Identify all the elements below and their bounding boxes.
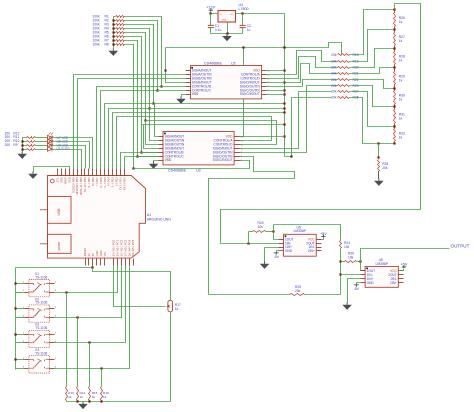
svg-text:TS-1106: TS-1106 [35, 326, 47, 330]
wire rail drop to U2 SIG pins [166, 48, 186, 83]
svg-text:10k: 10k [258, 225, 264, 229]
wire U3 SIG/D/INOUT stair to R24 [241, 92, 332, 149]
ground GND8 [346, 303, 348, 305]
svg-text:20k: 20k [331, 66, 337, 70]
wire R19 to tap1 [350, 30, 395, 62]
pin U5 2IN+ [317, 250, 322, 252]
wire D4 bus line 2 [109, 109, 285, 169]
wire +12V to regulator [211, 12, 219, 14]
pin U3 right CONTROL/A [235, 140, 241, 142]
pin U6 2IN- [399, 278, 404, 280]
ground GND3 [180, 97, 182, 99]
wire output riser [361, 249, 450, 262]
svg-text:20k: 20k [331, 96, 337, 100]
capacitor C1 0.1u [210, 14, 212, 26]
wire U2 SIG/C/OUTIN to spine [267, 90, 285, 92]
svg-text:AREF: AREF [63, 177, 67, 184]
wire LED U9 to U1 [53, 146, 86, 169]
pin U2 right SIG/D/OUTIN [262, 86, 267, 88]
wire U3 SIG/D/OUTIN stair to R23 [241, 86, 338, 153]
svg-text:20k: 20k [331, 90, 337, 94]
svg-text:1k: 1k [399, 98, 403, 102]
wire U3 SIG/A/OUTIN feed [150, 109, 159, 141]
svg-text:1k: 1k [399, 116, 403, 120]
junction rail dots [76, 400, 78, 402]
pin U2 left VSS [186, 94, 191, 96]
pin U1 top 7 / PD7 [96, 169, 98, 176]
pin U3 right SIG/C/INOUT [235, 160, 241, 162]
junction [148, 107, 150, 109]
junction ladder tap [393, 105, 395, 107]
svg-text:TS-1106: TS-1106 [35, 301, 47, 305]
supply U6 +5V [399, 269, 404, 271]
wire LED U10 to U1 [53, 150, 82, 169]
wire R24 bottom node [340, 249, 342, 295]
wire 1OUT to R24 top [273, 225, 275, 232]
wire bottom ground rail [67, 401, 171, 403]
wire U2 SIG/C/INOUT to spine [267, 94, 285, 96]
svg-text:LM358P: LM358P [294, 229, 307, 233]
pin U5 GND [279, 250, 284, 252]
diode U7 LED [48, 135, 53, 139]
wire U3 VSS to ground [154, 161, 159, 162]
wire D2 bus line 4 to U3 CONTROL/A [117, 117, 272, 169]
svg-text:+12V: +12V [206, 6, 215, 10]
svg-text:GND: GND [222, 20, 227, 22]
svg-text:VSS: VSS [192, 92, 199, 96]
wire U1 GND to ground [34, 167, 70, 172]
op-amp U6 LM358P box [365, 266, 398, 287]
pin U5 2IN- [317, 247, 322, 249]
ground GND7 [264, 262, 266, 264]
pin U1 top 8 / PB0 [92, 169, 94, 176]
svg-text:1u: 1u [247, 28, 251, 32]
svg-text:100k: 100k [93, 43, 101, 47]
pin U6 1OUT [361, 270, 366, 272]
pin U3 left SIG/A/OUTIN [159, 140, 164, 142]
wire R22 to tap4 [350, 80, 395, 89]
op IC U2 CD4066 box [191, 66, 262, 99]
junction ladder tap [393, 125, 395, 127]
svg-text:3~ / PD3: 3~ / PD3 [111, 177, 115, 188]
svg-text:SDA: SDA [59, 177, 63, 183]
wire LED U8 to U1 [53, 142, 90, 169]
svg-text:USB: USB [57, 208, 61, 216]
pin U5 1OUT [279, 239, 284, 241]
junction [156, 89, 158, 91]
wire U6 1IN+ to ground [348, 279, 361, 303]
capacitor C2 1u [242, 14, 244, 26]
ground GND10 [82, 402, 84, 404]
svg-text:SCK/13 / PB5: SCK/13 / PB5 [71, 177, 75, 194]
resistor R16 1k [101, 369, 103, 387]
wire R2 to column [125, 21, 158, 91]
pin U1 top TX 1 / PD1 [120, 169, 122, 176]
wire spine bottom stair to R25 [285, 98, 332, 157]
pin U5 1IN- [279, 243, 284, 245]
wire R4 to column [125, 29, 150, 109]
pin U1 bottom 19 / A5 / PC5 [133, 259, 135, 266]
junction ladder tap [393, 8, 395, 10]
wire U2 SIG/D/OUTIN to R22 [267, 80, 338, 87]
pin U1 top 2 / PD2 [116, 169, 118, 176]
svg-text:10k: 10k [348, 255, 354, 259]
pin U2 right SIG/D/INOUT [262, 82, 267, 84]
ground GND5 [32, 172, 34, 174]
supply +12V [209, 8, 213, 11]
wire D1 to U3 CONTROL/B [121, 153, 159, 169]
svg-text:GND: GND [367, 281, 375, 285]
wire U3 VDD extension [241, 136, 285, 138]
svg-text:-5V: -5V [354, 287, 360, 291]
resistor R29 1k [394, 68, 396, 72]
wire bus line 5 to U3 CONTROL/D [146, 121, 277, 145]
pin U3 right VDD [235, 136, 241, 138]
svg-text:20k: 20k [295, 289, 301, 293]
pin U2 right SIG/C/OUTIN [262, 90, 267, 92]
svg-text:U2: U2 [231, 61, 236, 65]
svg-text:20k: 20k [331, 59, 337, 63]
svg-text:R8: R8 [105, 43, 109, 47]
connector USB [48, 196, 72, 223]
wire R23 to tap5 [350, 86, 395, 107]
wire U2 SIG/D/INOUT to R21 [267, 64, 338, 83]
pin U5 2OUT [317, 243, 322, 245]
svg-text:1k: 1k [399, 135, 403, 139]
resistor R27 1k [394, 30, 396, 33]
resistor R28 1k [394, 49, 396, 52]
supply U5 -5V [277, 251, 279, 253]
wire R8 to column [125, 45, 134, 169]
wire U3 SIG/C/INOUT wrap to 100k junction [134, 161, 250, 169]
wire D6 to U2 CONTROL/C [101, 91, 186, 169]
pin U1 bottom 16 / A2 / PC2 [121, 259, 123, 266]
ground GND9 [21, 152, 23, 154]
node LED ground rail [22, 138, 24, 152]
wire regulator output rail +9V [236, 13, 285, 15]
pin U6 VCC [399, 270, 404, 272]
pin U3 left SIG/B/INOUT [159, 148, 164, 150]
op IC U3 CD4066 box [163, 132, 234, 165]
pin U3 right CONTROL/D [235, 144, 241, 146]
svg-text:5V: 5V [91, 253, 95, 256]
pin U1 top SDA [61, 169, 63, 176]
svg-text:power: power [57, 241, 61, 251]
svg-text:+5V: +5V [320, 232, 327, 236]
wire A1 to K1 [55, 266, 118, 293]
wire spine x284 [284, 14, 286, 157]
svg-text:+5V: +5V [400, 262, 407, 266]
svg-text:0.1u: 0.1u [215, 28, 222, 32]
svg-text:GND: GND [99, 250, 103, 256]
pin U1 top SS~10 / PB2 [84, 169, 86, 176]
svg-text:RESET: RESET [83, 247, 87, 256]
wire 5V to pot top [93, 268, 171, 301]
wire K3 rail [16, 334, 25, 336]
pin U6 1IN+ [361, 278, 366, 280]
wire LED U7 to U1 [53, 138, 93, 169]
ground GND2 [226, 34, 228, 36]
svg-text:20k: 20k [331, 72, 337, 76]
wire U3 SIG/C/OUTIN wrap [209, 157, 295, 295]
wire U2 CONTROL/D to R20 [267, 57, 338, 79]
svg-text:19 / A5 / PC5: 19 / A5 / PC5 [131, 239, 135, 256]
svg-text:VSS: VSS [165, 158, 172, 162]
wire A3 to K3 [55, 266, 126, 343]
svg-text:7 / PD7: 7 / PD7 [95, 177, 99, 186]
svg-text:10k: 10k [344, 245, 350, 249]
wire R18 to ladder top [350, 10, 395, 55]
pin U1 top RX 0 / PD0 [124, 169, 126, 176]
wire K2 rail [16, 308, 25, 310]
pin U6 2OUT [399, 274, 404, 276]
wire U3 row6 tail [138, 156, 159, 158]
svg-text:VO: VO [230, 14, 233, 16]
svg-text:2IN+: 2IN+ [390, 281, 397, 285]
svg-text:2 / PD2: 2 / PD2 [115, 177, 119, 186]
pin U1 top 4 / PD4 [108, 169, 110, 176]
diode U9 LED [48, 143, 53, 147]
pin U3 left SIG/A/INOUT [159, 136, 164, 138]
wire A2 to K2 [55, 266, 122, 318]
pin U5 1IN+ [279, 247, 284, 249]
junction [144, 119, 146, 121]
pin U3 left CONTROL/B [159, 152, 164, 154]
wire regulator ground rail [211, 33, 243, 35]
pin U1 top AREF [65, 169, 67, 176]
wire U3 SIG/B/OUTIN feed [146, 121, 159, 145]
svg-text:1k: 1k [175, 307, 179, 311]
pin U1 top 3~ / PD3 [112, 169, 114, 176]
svg-text:8 / PB0: 8 / PB0 [91, 177, 95, 186]
junction [152, 102, 154, 104]
svg-text:5~ / PD5: 5~ / PD5 [103, 177, 107, 188]
junction ladder tap [393, 47, 395, 49]
resistor R26 1k [394, 10, 396, 13]
pin U1 bottom 5V [92, 259, 94, 266]
junction [160, 85, 162, 87]
svg-text:SCL: SCL [56, 177, 60, 183]
junction ladder tap [393, 66, 395, 68]
pin U1 top 9~ / PB1 [88, 169, 90, 176]
diode U10 LED [48, 147, 53, 151]
svg-text:R9: R9 [13, 143, 17, 147]
wire D0 to U3 CONTROL/C [125, 157, 159, 169]
svg-text:SIG/C/INOUT: SIG/C/INOUT [213, 158, 233, 162]
svg-text:MOSI~11 / PB3: MOSI~11 / PB3 [79, 177, 83, 195]
wire R24 to tap6 [350, 92, 395, 127]
wire feedback down to 1OUT [248, 232, 250, 244]
wire U2 VDD to spine [267, 70, 285, 72]
pin U1 top SCK/13 / PB5 [73, 169, 75, 176]
pin U1 top SCL [57, 169, 59, 176]
wire U3 SIG/B/INOUT feed [144, 125, 159, 149]
wire R6 to column [125, 37, 142, 153]
wire R7 to column [125, 41, 138, 157]
resistor R31 1k [394, 107, 396, 110]
resistor R13 1k [66, 293, 68, 387]
pin U2 right VDD [262, 70, 267, 72]
svg-text:9~ / PB1: 9~ / PB1 [87, 177, 91, 188]
op-amp U5 LM358P box [284, 234, 317, 256]
svg-text:GND: GND [67, 177, 71, 183]
wire U5 1IN+ to ground [265, 248, 279, 262]
resistor R33 20k to ground [378, 144, 380, 158]
wire 1IN- net [221, 243, 279, 245]
wire A4 to K4 [55, 266, 130, 369]
pin U2 right CONTROL/D [262, 78, 267, 80]
wire ladder top to feedback column [221, 4, 421, 244]
pin U1 bottom 14 / A0 / PC0 [113, 259, 115, 266]
wire R20 to tap2 [350, 49, 395, 68]
ground GND1 [112, 49, 114, 51]
svg-text:LM358P: LM358P [376, 262, 389, 266]
svg-text:ARDUINO UNO: ARDUINO UNO [147, 217, 171, 221]
pin U1 bottom RESET [85, 259, 87, 266]
pin U2 right SIG/C/INOUT [262, 94, 267, 96]
junction ladder tap [393, 28, 395, 30]
wire U3 SIG/A/INOUT feed [155, 104, 159, 137]
pin U5 VCC [317, 239, 322, 241]
pin U1 bottom VIN [104, 259, 106, 266]
svg-text:TS-1106: TS-1106 [35, 275, 47, 279]
pin U1 bottom 15 / A1 / PC1 [117, 259, 119, 266]
node 100k array ground rail [113, 17, 115, 49]
pin U1 bottom 18 / A4 / PC4 [129, 259, 131, 266]
pin U2 left SIG/A/INOUT [186, 70, 191, 72]
resistor R14 1k [77, 318, 79, 387]
pin U6 1IN- [361, 274, 366, 276]
svg-text:1k: 1k [399, 78, 403, 82]
svg-text:-5V: -5V [273, 255, 279, 259]
junction ladder tap [393, 87, 395, 89]
resistor R24v 10k [340, 241, 342, 249]
svg-text:SS~10 / PB2: SS~10 / PB2 [83, 177, 87, 192]
resistor R15 1k [89, 343, 91, 387]
ground GND6 [378, 179, 380, 181]
pin U3 right SIG/C/OUTIN [235, 156, 241, 158]
svg-text:3V: 3V [87, 253, 91, 256]
svg-text:200: 200 [5, 143, 11, 147]
supply U5 +5V [322, 238, 324, 240]
junction [136, 155, 138, 157]
pin U1 bottom GND [100, 259, 102, 266]
potentiometer R17 1k [168, 300, 173, 311]
pin U6 GND [361, 282, 366, 284]
wire R25 to ladder bottom [350, 98, 395, 144]
pin U3 right SIG/D/OUTIN [235, 152, 241, 154]
pin U2 left SIG/B/OUTIN [186, 78, 191, 80]
wire R26 to U6 1OUT [361, 262, 366, 271]
junction [132, 167, 134, 169]
wire pot bottom to ground rail [170, 312, 172, 402]
ground GND4 [153, 162, 155, 164]
svg-text:20k: 20k [331, 53, 337, 57]
junction [140, 151, 142, 153]
svg-text:20k: 20k [331, 84, 337, 88]
wire R21 to tap3 [350, 68, 395, 74]
svg-text:GND: GND [95, 250, 99, 256]
wire U2 VSS to ground [182, 95, 186, 97]
junction R33 top [377, 142, 379, 144]
wire D3 bus line 3 [113, 113, 285, 169]
svg-text:2IN+: 2IN+ [308, 249, 315, 253]
svg-text:OUTPUT: OUTPUT [451, 243, 470, 248]
pin U2 left SIG/B/INOUT [186, 82, 191, 84]
svg-text:4 / PD4: 4 / PD4 [107, 177, 111, 186]
svg-text:CD4066BE: CD4066BE [204, 61, 223, 65]
svg-text:20k: 20k [331, 78, 337, 82]
wire VDD rail [166, 43, 342, 55]
svg-text:1k: 1k [399, 20, 403, 24]
pin U6 2IN+ [399, 282, 404, 284]
wire U3 row5 tail [142, 152, 159, 154]
pin U3 right SIG/D/INOUT [235, 148, 241, 150]
svg-text:1k: 1k [80, 395, 84, 399]
pin U1 top MISO/12 / PB4 [77, 169, 79, 176]
svg-text:VIN: VIN [103, 252, 107, 256]
wire U2 CONTROL/A to R19 [267, 51, 338, 75]
pin U2 left CONTROL/B [186, 86, 191, 88]
pin U1 bottom 17 / A3 / PC3 [125, 259, 127, 266]
svg-text:SIG/C/INOUT: SIG/C/INOUT [240, 92, 260, 96]
pin U1 top 5~ / PD5 [104, 169, 106, 176]
pin U3 left CONTROL/C [159, 156, 164, 158]
resistor R30 1k [394, 89, 396, 91]
svg-text:1k: 1k [103, 395, 107, 399]
wire D5 bus line 1 [105, 104, 285, 169]
connector power jack [48, 234, 72, 253]
pin U1 bottom GND [96, 259, 98, 266]
svg-text:1k: 1k [399, 58, 403, 62]
svg-text:TX 1 / PD1: TX 1 / PD1 [119, 177, 123, 190]
wire switch supply rail [15, 268, 17, 370]
pin U1 top GND [69, 169, 71, 176]
wire D13 to U2 SIG/A/OUTIN [74, 75, 186, 169]
svg-text:RX 0 / PD0: RX 0 / PD0 [122, 177, 126, 191]
svg-text:MISO/12 / PB4: MISO/12 / PB4 [75, 177, 79, 195]
wire U3 VDD riser [241, 48, 244, 137]
svg-text:GND: GND [285, 249, 293, 253]
diode U8 LED [48, 139, 53, 143]
regulator U4 L7800 [218, 11, 236, 23]
wire 5V to switches rail [16, 266, 93, 268]
wire A0 to pot wiper [114, 266, 166, 307]
svg-text:1k: 1k [68, 395, 72, 399]
svg-text:6~ / PD6: 6~ / PD6 [99, 177, 103, 188]
wire K4 rail [16, 359, 25, 361]
mcu U1 Arduino Uno body [48, 176, 146, 259]
wire D12 to U2 SIG/B/OUTIN [78, 79, 186, 169]
pin U2 right CONTROL/A [262, 74, 267, 76]
wire R3 to column [125, 25, 154, 104]
svg-text:R18: R18 [353, 53, 359, 57]
wire R5 to column [125, 33, 146, 121]
svg-text:1k: 1k [399, 39, 403, 43]
pin U1 top MOSI~11 / PB3 [81, 169, 83, 176]
pin U1 bottom 3V [88, 259, 90, 266]
pin U1 top 6~ / PD6 [100, 169, 102, 176]
pin U3 left SIG/B/OUTIN [159, 144, 164, 146]
pin U3 left VSS [159, 160, 164, 162]
junction ladder tap [393, 142, 395, 144]
wire bus line 6 to spine [142, 124, 285, 126]
svg-text:20k: 20k [382, 166, 388, 170]
svg-text:1k: 1k [92, 395, 96, 399]
svg-text:TS-1106: TS-1106 [35, 352, 47, 356]
wire U6 1IN- [341, 274, 361, 276]
supply U6 -5V [357, 283, 361, 285]
